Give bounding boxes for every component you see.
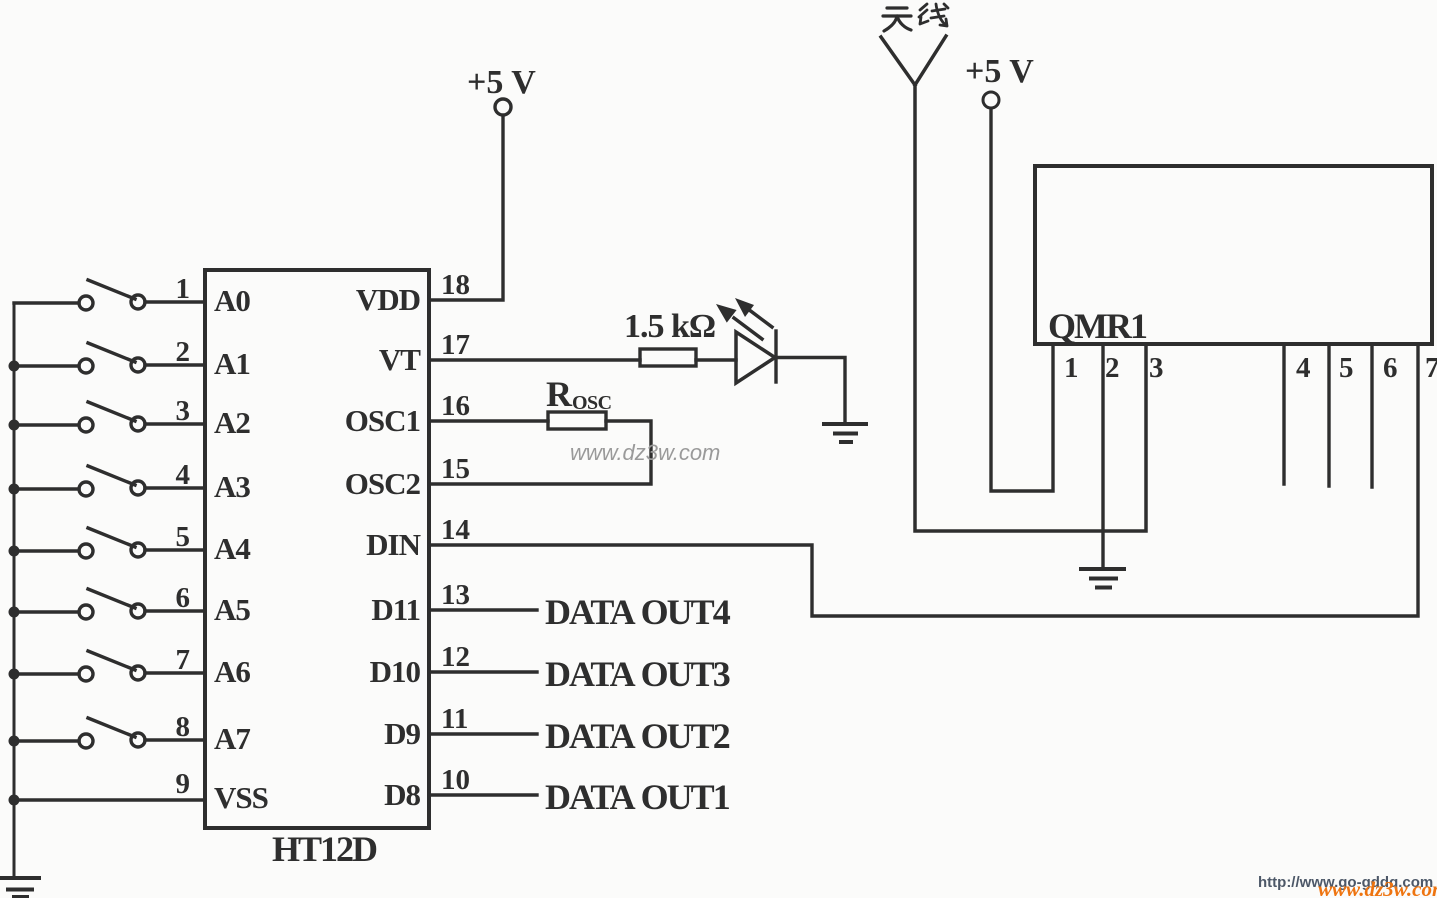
- svg-text:+5 V: +5 V: [965, 53, 1034, 90]
- svg-text:D11: D11: [371, 592, 420, 627]
- svg-text:DIN: DIN: [366, 527, 420, 562]
- svg-text:VT: VT: [379, 342, 421, 377]
- svg-text:3: 3: [1149, 352, 1164, 384]
- svg-text:10: 10: [441, 764, 470, 796]
- svg-text:11: 11: [441, 703, 468, 735]
- svg-text:A4: A4: [214, 531, 250, 566]
- svg-text:OSC2: OSC2: [345, 466, 421, 501]
- svg-text:6: 6: [176, 582, 191, 614]
- svg-text:A7: A7: [214, 721, 250, 756]
- svg-text:+5 V: +5 V: [467, 64, 536, 101]
- svg-text:8: 8: [176, 711, 191, 743]
- svg-text:6: 6: [1383, 352, 1398, 384]
- svg-text:4: 4: [1296, 352, 1311, 384]
- svg-text:1.5 kΩ: 1.5 kΩ: [624, 308, 715, 345]
- svg-text:16: 16: [441, 390, 470, 422]
- svg-text:14: 14: [441, 514, 470, 546]
- svg-text:5: 5: [1339, 352, 1354, 384]
- svg-text:DATA OUT4: DATA OUT4: [545, 592, 731, 632]
- svg-text:VDD: VDD: [356, 282, 420, 317]
- svg-text:A6: A6: [214, 654, 250, 689]
- svg-text:17: 17: [441, 329, 470, 361]
- svg-text:OSC1: OSC1: [345, 403, 420, 438]
- svg-text:18: 18: [441, 269, 470, 301]
- svg-text:3: 3: [176, 395, 191, 427]
- svg-text:15: 15: [441, 453, 470, 485]
- svg-text:HT12D: HT12D: [272, 829, 377, 869]
- svg-text:2: 2: [176, 336, 191, 368]
- svg-text:DATA OUT3: DATA OUT3: [545, 654, 730, 694]
- svg-text:5: 5: [176, 521, 191, 553]
- svg-text:VSS: VSS: [214, 780, 268, 815]
- svg-text:QMR1: QMR1: [1048, 306, 1147, 346]
- svg-text:1: 1: [176, 273, 191, 305]
- svg-text:DATA OUT2: DATA OUT2: [545, 716, 730, 756]
- svg-text:D9: D9: [384, 716, 420, 751]
- svg-text:7: 7: [1425, 352, 1437, 384]
- svg-text:A3: A3: [214, 469, 250, 504]
- svg-text:www.dz3w.com: www.dz3w.com: [1318, 877, 1437, 898]
- svg-text:A2: A2: [214, 405, 250, 440]
- svg-text:DATA OUT1: DATA OUT1: [545, 777, 730, 817]
- svg-text:D10: D10: [370, 654, 421, 689]
- svg-text:4: 4: [176, 459, 191, 491]
- svg-text:1: 1: [1064, 352, 1079, 384]
- svg-text:2: 2: [1105, 352, 1120, 384]
- svg-text:A0: A0: [214, 283, 250, 318]
- svg-text:12: 12: [441, 641, 470, 673]
- svg-text:A1: A1: [214, 346, 250, 381]
- svg-text:www.dz3w.com: www.dz3w.com: [570, 440, 720, 465]
- svg-text:13: 13: [441, 579, 470, 611]
- svg-text:7: 7: [176, 644, 191, 676]
- svg-text:9: 9: [176, 768, 191, 800]
- svg-text:D8: D8: [384, 777, 420, 812]
- svg-text:A5: A5: [214, 592, 250, 627]
